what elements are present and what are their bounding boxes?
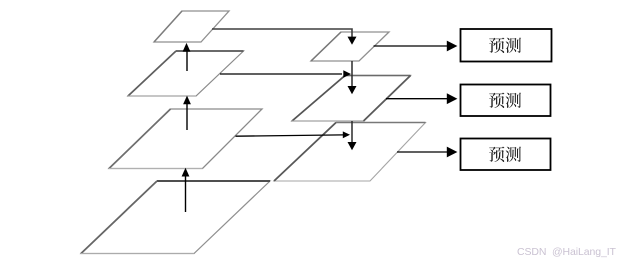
lateral wire C5 to P5 (with corner) bbox=[212, 29, 352, 37]
upsample arrow C3 to C4 bbox=[186, 104, 188, 130]
lateral arrow C3 to P3 bbox=[236, 135, 344, 136]
predict arrow P5 to box 1 bbox=[374, 45, 449, 47]
prediction box 3 bbox=[461, 139, 551, 171]
predict arrow P3 to box 3 bbox=[397, 151, 449, 153]
prediction box 1 bbox=[461, 29, 552, 62]
label 预测 box 3 bbox=[489, 147, 521, 162]
label 预测 box 2 bbox=[489, 93, 521, 108]
prediction box 2 bbox=[461, 85, 551, 117]
feature map P4 (middle-right parallelogram) bbox=[292, 76, 411, 122]
feature map C5 (top-left small parallelogram) bbox=[154, 11, 229, 42]
upsample arrow C4 to C5 bbox=[186, 51, 188, 71]
top-down wire P4 to P3 bbox=[351, 121, 353, 143]
arrowhead down into P5 bbox=[348, 37, 357, 45]
feature map C2 (bottom-left large parallelogram) bbox=[81, 181, 270, 254]
top-down wire P5 to P4 bbox=[351, 61, 353, 87]
feature map P3 (bottom-right parallelogram) bbox=[274, 123, 426, 182]
feature map C3 (left parallelogram 3) bbox=[109, 109, 262, 169]
watermark CSDN @HaiLang_IT bbox=[517, 246, 616, 258]
feature map C4 (left parallelogram 2) bbox=[128, 51, 244, 96]
arrowhead down into P3 bbox=[348, 142, 357, 150]
lateral arrow C4 to P4 bbox=[220, 73, 342, 75]
upsample arrow C2 to C3 bbox=[185, 176, 187, 212]
predict arrow P4 to box 2 bbox=[386, 98, 449, 100]
feature map P5 (top-right small parallelogram) bbox=[311, 32, 389, 61]
arrowhead down into P4 bbox=[348, 86, 357, 94]
label 预测 box 1 bbox=[489, 38, 521, 53]
